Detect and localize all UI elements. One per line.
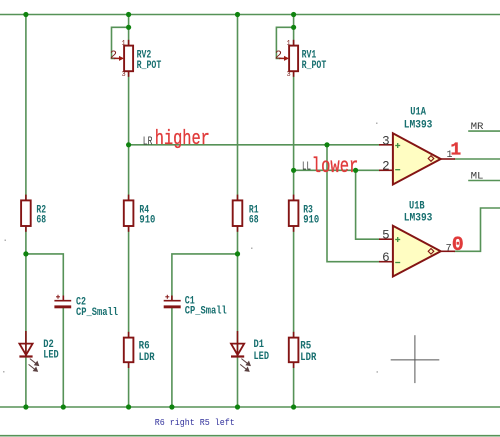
svg-text:LR: LR xyxy=(143,136,153,149)
svg-text:MR: MR xyxy=(471,122,484,133)
svg-text:1: 1 xyxy=(287,40,291,48)
svg-text:LDR: LDR xyxy=(139,352,155,364)
svg-text:3: 3 xyxy=(287,71,291,79)
svg-text:3: 3 xyxy=(382,134,390,148)
svg-text:U1A: U1A xyxy=(410,106,426,118)
svg-text:2: 2 xyxy=(110,49,117,63)
svg-text:2: 2 xyxy=(275,49,282,63)
svg-text:1: 1 xyxy=(122,40,126,48)
svg-text:R6 right R5 left: R6 right R5 left xyxy=(155,417,235,428)
svg-text:LED: LED xyxy=(43,350,59,362)
svg-text:LED: LED xyxy=(254,351,270,363)
svg-text:910: 910 xyxy=(139,215,155,227)
svg-text:910: 910 xyxy=(303,215,319,227)
svg-text:U1B: U1B xyxy=(409,200,425,212)
svg-text:R_POT: R_POT xyxy=(302,60,327,72)
svg-text:5: 5 xyxy=(382,229,390,243)
svg-text:ML: ML xyxy=(471,171,484,182)
svg-text:3: 3 xyxy=(122,71,126,79)
svg-text:LM393: LM393 xyxy=(404,213,433,225)
svg-text:CP_Small: CP_Small xyxy=(185,306,227,318)
svg-text:D1: D1 xyxy=(254,339,265,351)
svg-text:R6: R6 xyxy=(139,340,150,352)
svg-text:LM393: LM393 xyxy=(404,119,433,131)
svg-text:higher: higher xyxy=(155,128,210,151)
svg-text:1: 1 xyxy=(450,140,461,160)
svg-text:2: 2 xyxy=(382,160,390,174)
svg-text:7: 7 xyxy=(446,243,452,254)
svg-text:68: 68 xyxy=(249,215,259,227)
svg-text:lower: lower xyxy=(312,155,359,179)
svg-text:CP_Small: CP_Small xyxy=(76,307,118,319)
svg-text:6: 6 xyxy=(382,251,390,265)
svg-text:R_POT: R_POT xyxy=(137,60,162,72)
svg-text:68: 68 xyxy=(36,215,46,227)
svg-text:LDR: LDR xyxy=(300,352,316,364)
svg-text:R5: R5 xyxy=(300,340,311,352)
svg-text:LL: LL xyxy=(302,160,311,173)
svg-text:0: 0 xyxy=(452,234,464,257)
